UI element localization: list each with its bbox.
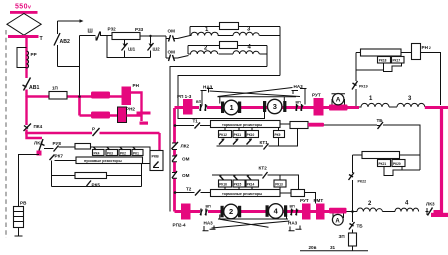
svg-text:ОМ: ОМ: [182, 173, 190, 178]
svg-text:Р32: Р32: [108, 27, 117, 32]
relay RN2 right box: [412, 44, 421, 60]
contact box RK1: [132, 150, 143, 156]
svg-text:ПК4: ПК4: [34, 124, 43, 129]
contact box RK18: [378, 57, 391, 64]
contact OM series upper: [172, 155, 177, 162]
wire Sh horizontal: [80, 35, 96, 37]
wire RN2r to right vertical: [421, 53, 441, 106]
wire field 1-3 right vertical down: [279, 27, 281, 76]
resistor starting box text: [76, 157, 143, 164]
svg-text:АВ2: АВ2: [60, 39, 70, 45]
svg-text:РУТ: РУТ: [300, 198, 309, 203]
ground bar upper: [137, 112, 151, 115]
svg-text:Ш2: Ш2: [153, 47, 161, 52]
svg-text:РК1: РК1: [133, 151, 139, 155]
contact box RK3: [106, 150, 118, 156]
wire RK21-20 bracket: [384, 167, 402, 176]
contactor LK2: [172, 142, 179, 149]
svg-text:РВ: РВ: [20, 201, 27, 206]
wire motor row1 magenta: [175, 106, 360, 109]
contact RK5: [87, 181, 92, 187]
svg-text:20в: 20в: [309, 245, 317, 250]
wire RK22 vertical: [352, 155, 354, 212]
bus line2 magenta: [80, 114, 119, 117]
svg-text:РК3: РК3: [107, 151, 113, 155]
wire coil3 to bus magenta: [425, 106, 448, 109]
contact box RK16: [219, 180, 232, 187]
contact box RK9: [274, 131, 285, 138]
wire resistor lower left: [353, 154, 363, 156]
svg-text:Р: Р: [92, 127, 95, 132]
wire T2 branch: [176, 192, 195, 194]
wire main feeder vertical: [25, 38, 27, 78]
switch PK4: [25, 97, 27, 126]
svg-text:31: 31: [330, 245, 336, 250]
resistor brake lower box: [211, 190, 281, 197]
switch AB1: [24, 78, 31, 91]
svg-text:РП 1-3: РП 1-3: [177, 94, 192, 99]
svg-text:2: 2: [229, 207, 233, 216]
contact box RK13: [274, 180, 286, 187]
contact box RK2: [119, 150, 131, 156]
wire AB2 top arrow: [58, 20, 83, 22]
wire TB lower branch: [352, 212, 354, 234]
contact box RK11: [233, 131, 245, 138]
svg-text:пусковые резисторы: пусковые резисторы: [84, 159, 122, 163]
svg-text:РУТ: РУТ: [312, 93, 321, 98]
inductor field winding 4: [233, 51, 259, 54]
svg-text:КТ2: КТ2: [259, 166, 268, 171]
inductor PP surge coil: [27, 51, 29, 68]
svg-text:РК10: РК10: [247, 133, 255, 137]
wire main magenta vertical series link: [173, 108, 176, 212]
wire ZP to ground line: [352, 246, 354, 251]
field group 2-4 top wire: [188, 45, 267, 47]
wire shunt loop left: [107, 36, 151, 58]
svg-text:ЛК3: ЛК3: [426, 202, 435, 207]
inductor field winding 3: [233, 32, 259, 35]
wire RUT stub magenta: [308, 123, 324, 127]
contact Sh2: [150, 36, 152, 58]
svg-text:ТБ: ТБ: [357, 224, 364, 229]
wire body dashed boundary: [5, 30, 7, 238]
wire starting right vertical: [141, 164, 143, 187]
svg-text:Т2: Т2: [186, 187, 192, 192]
wire pantograph top bar: [10, 11, 38, 14]
svg-text:РК19: РК19: [359, 85, 368, 89]
wire resistor lower right: [400, 154, 421, 156]
svg-text:РН: РН: [133, 83, 140, 88]
svg-text:НА3: НА3: [204, 221, 214, 226]
resistor dempfer magenta box1: [91, 92, 110, 99]
wire RKV link: [142, 163, 151, 165]
wire to small box lower: [280, 192, 291, 194]
svg-text:ВП: ВП: [196, 100, 202, 104]
svg-text:Ш: Ш: [88, 29, 93, 35]
wire LK3 to bus: [434, 210, 443, 213]
contact box RK21: [378, 160, 391, 167]
svg-text:ОМ: ОМ: [182, 157, 190, 162]
svg-text:PP: PP: [31, 52, 37, 57]
wire starting row1 cont: [91, 147, 151, 151]
wire starting row1: [59, 146, 76, 148]
resistor dempfer magenta box2: [91, 112, 110, 119]
svg-text:РК16: РК16: [219, 182, 227, 186]
contact box RK20: [392, 160, 405, 167]
wire field 1-3 output: [260, 35, 281, 37]
wire to RV resistor: [19, 155, 40, 207]
contact arrows RK12-10: [219, 139, 252, 145]
shunt ammeter row1: [329, 105, 348, 111]
switch AB2: [54, 33, 60, 46]
svg-text:НА3: НА3: [288, 221, 298, 226]
svg-text:ЗП: ЗП: [339, 234, 345, 239]
svg-text:АВ1: АВ1: [29, 85, 39, 91]
wire motor row2 magenta: [175, 210, 331, 213]
svg-text:РК18: РК18: [379, 59, 387, 63]
resistor brake upper box: [211, 121, 281, 128]
wire RN2 to ground: [127, 116, 142, 122]
wire row2 to coils: [347, 211, 358, 213]
contact RK22: [349, 173, 355, 181]
relay RKV box: [150, 151, 163, 171]
svg-text:РК4: РК4: [94, 151, 100, 155]
relay RN2 coil box: [118, 107, 127, 123]
wire starting left vertical: [51, 161, 53, 187]
wire RN to ground vertical: [131, 93, 142, 113]
contact box RK14: [246, 180, 259, 187]
wire RV tail: [15, 228, 23, 237]
motor 3: [263, 101, 266, 112]
relay RP2-4 box: [181, 204, 191, 220]
motor 1: [221, 102, 224, 114]
svg-text:1: 1: [230, 103, 234, 112]
contact box RK15: [233, 180, 245, 187]
wire stubs RK21-20: [384, 159, 398, 160]
contact OM series lower: [172, 171, 177, 178]
wire bus3 down to RKV: [158, 133, 160, 151]
resistor starting B: [75, 173, 107, 179]
wire AB2 bottom link: [58, 66, 80, 68]
svg-text:3: 3: [273, 102, 277, 111]
wire KT1 line right: [269, 129, 298, 147]
resistor starting A: [75, 144, 91, 150]
contact TB lower: [349, 222, 355, 230]
svg-text:тормозные резисторы: тормозные резисторы: [222, 123, 262, 127]
svg-text:РК15: РК15: [234, 182, 242, 186]
wire between field coils: [219, 35, 234, 37]
wire resistor to RN2r: [401, 52, 412, 54]
svg-text:ВП: ВП: [290, 205, 296, 209]
wire Sh to R32: [101, 35, 113, 37]
inductor field winding 1: [190, 32, 219, 35]
contact box RK17: [392, 57, 405, 64]
contact arrows RK16-14: [220, 176, 253, 182]
svg-text:ОМ: ОМ: [168, 29, 176, 34]
wire between field coils 2-4: [219, 53, 234, 55]
wire T1 branch: [176, 125, 194, 127]
wire RK18-17 bracket: [384, 63, 402, 72]
contactor LK1 branch: [27, 133, 43, 138]
bus right bottom T bar: [431, 213, 448, 217]
wire pantograph bottom bar: [8, 35, 39, 38]
wire starting row3 cont: [107, 175, 142, 177]
ammeter A row1: [332, 94, 346, 105]
crossover wires row1: [210, 91, 301, 97]
motor 2: [221, 206, 224, 218]
resistor lower damping: [362, 152, 400, 159]
wire PP bypass loop: [17, 48, 27, 68]
svg-text:РК9: РК9: [275, 133, 281, 137]
wire stubs boxes to brake resistor: [225, 128, 252, 131]
svg-text:КТ1: КТ1: [260, 140, 269, 145]
contact RK19: [352, 81, 358, 90]
svg-text:ВП: ВП: [296, 101, 302, 105]
node junction dots: [78, 95, 81, 98]
wire feeder to bus: [25, 90, 27, 98]
wire bottom supply line: [300, 250, 368, 252]
inductor field winding 2: [188, 51, 218, 54]
svg-text:ОМ: ОМ: [168, 50, 176, 55]
svg-text:Р33: Р33: [135, 27, 144, 32]
resistor field shunt 1-3: [220, 23, 239, 30]
ground bar lower: [140, 122, 149, 125]
motor 4: [266, 205, 269, 217]
wire KT2 line: [212, 174, 263, 176]
svg-text:РК20: РК20: [393, 162, 401, 166]
svg-text:РУ8: РУ8: [53, 141, 62, 146]
contact box RK12: [219, 131, 232, 138]
resistor field shunt 2-4: [220, 42, 238, 49]
field group 1-3 top wire: [190, 26, 280, 28]
svg-text:550v: 550v: [15, 4, 32, 11]
svg-text:РК21: РК21: [379, 162, 387, 166]
wire field group 2-4 left vertical: [187, 46, 189, 55]
wire to small box upper: [280, 123, 290, 125]
crossover wires row2: [218, 218, 288, 220]
svg-text:А: А: [336, 97, 341, 104]
bus right magenta vertical: [440, 108, 443, 215]
wire starting row2: [55, 160, 77, 162]
svg-text:РКВ: РКВ: [152, 155, 160, 159]
svg-text:1П: 1П: [52, 86, 58, 91]
svg-text:РП2-4: РП2-4: [173, 223, 186, 228]
pantograph T diamond: [7, 14, 41, 36]
svg-text:РК14: РК14: [247, 182, 255, 186]
svg-text:РК12: РК12: [219, 133, 227, 137]
svg-text:ВП: ВП: [206, 205, 212, 209]
wire bus1 to bus2 drop: [78, 97, 81, 116]
svg-text:РК5: РК5: [92, 183, 101, 188]
svg-text:РМТ: РМТ: [314, 198, 324, 203]
wire R33 output: [140, 35, 166, 37]
wire OM feed vertical: [165, 36, 167, 58]
resistor brake upper small: [290, 122, 308, 129]
svg-text:Т1: Т1: [193, 119, 199, 124]
wire resistor top left: [356, 52, 361, 54]
svg-text:РК2: РК2: [120, 151, 126, 155]
contact Sh1: [124, 40, 126, 58]
wire KT2 right: [268, 175, 299, 189]
wire OM upper to field 1-3: [178, 36, 191, 39]
wire stubs to brake resistor lower: [225, 187, 252, 190]
wire starting bottom row: [52, 186, 142, 188]
wire field 1-3 return to motors: [178, 76, 280, 119]
svg-text:РН 2: РН 2: [422, 45, 431, 50]
bus line1 magenta: [26, 95, 122, 98]
resistor brake lower small: [291, 190, 305, 197]
wire field group 1-3 left vertical: [189, 27, 191, 36]
svg-text:РК13: РК13: [275, 182, 283, 186]
wire starting row3: [52, 175, 76, 177]
svg-text:тормозные резисторы: тормозные резисторы: [222, 192, 262, 196]
wire RK19 branch vertical: [355, 53, 357, 107]
wire OM lower to field 2-4: [178, 56, 189, 59]
svg-text:Ш1: Ш1: [128, 47, 136, 52]
wire TB to right net: [383, 125, 420, 170]
node LK1 blob: [37, 151, 42, 156]
ammeter A row2: [333, 214, 344, 219]
wire field 2-4 return long: [170, 67, 267, 212]
contact box RK10: [246, 131, 259, 138]
bus line3 magenta: [25, 132, 159, 135]
svg-text:ЛК2: ЛК2: [181, 144, 190, 149]
wire small box to RMT: [305, 193, 316, 204]
svg-text:РК11: РК11: [234, 133, 242, 137]
svg-text:РН2: РН2: [126, 107, 135, 112]
wire KT1 line: [217, 145, 264, 147]
contact box RK4: [93, 150, 105, 156]
wire AB2 branch vertical: [57, 21, 59, 67]
wire Sh branch vertical: [79, 36, 81, 97]
shunt ammeter row2: [329, 208, 347, 214]
wire TB line: [324, 124, 377, 126]
wire between coils row2: [383, 211, 396, 213]
resistor upper damping: [361, 49, 402, 56]
wire between coils right: [389, 106, 397, 108]
svg-text:А: А: [335, 218, 340, 224]
svg-text:РК17: РК17: [393, 59, 401, 63]
wire bus3 vertical bend: [25, 130, 27, 134]
svg-text:РК22: РК22: [358, 180, 367, 184]
svg-text:РК7: РК7: [55, 154, 64, 159]
wire field 2-4 right vertical: [260, 46, 268, 67]
